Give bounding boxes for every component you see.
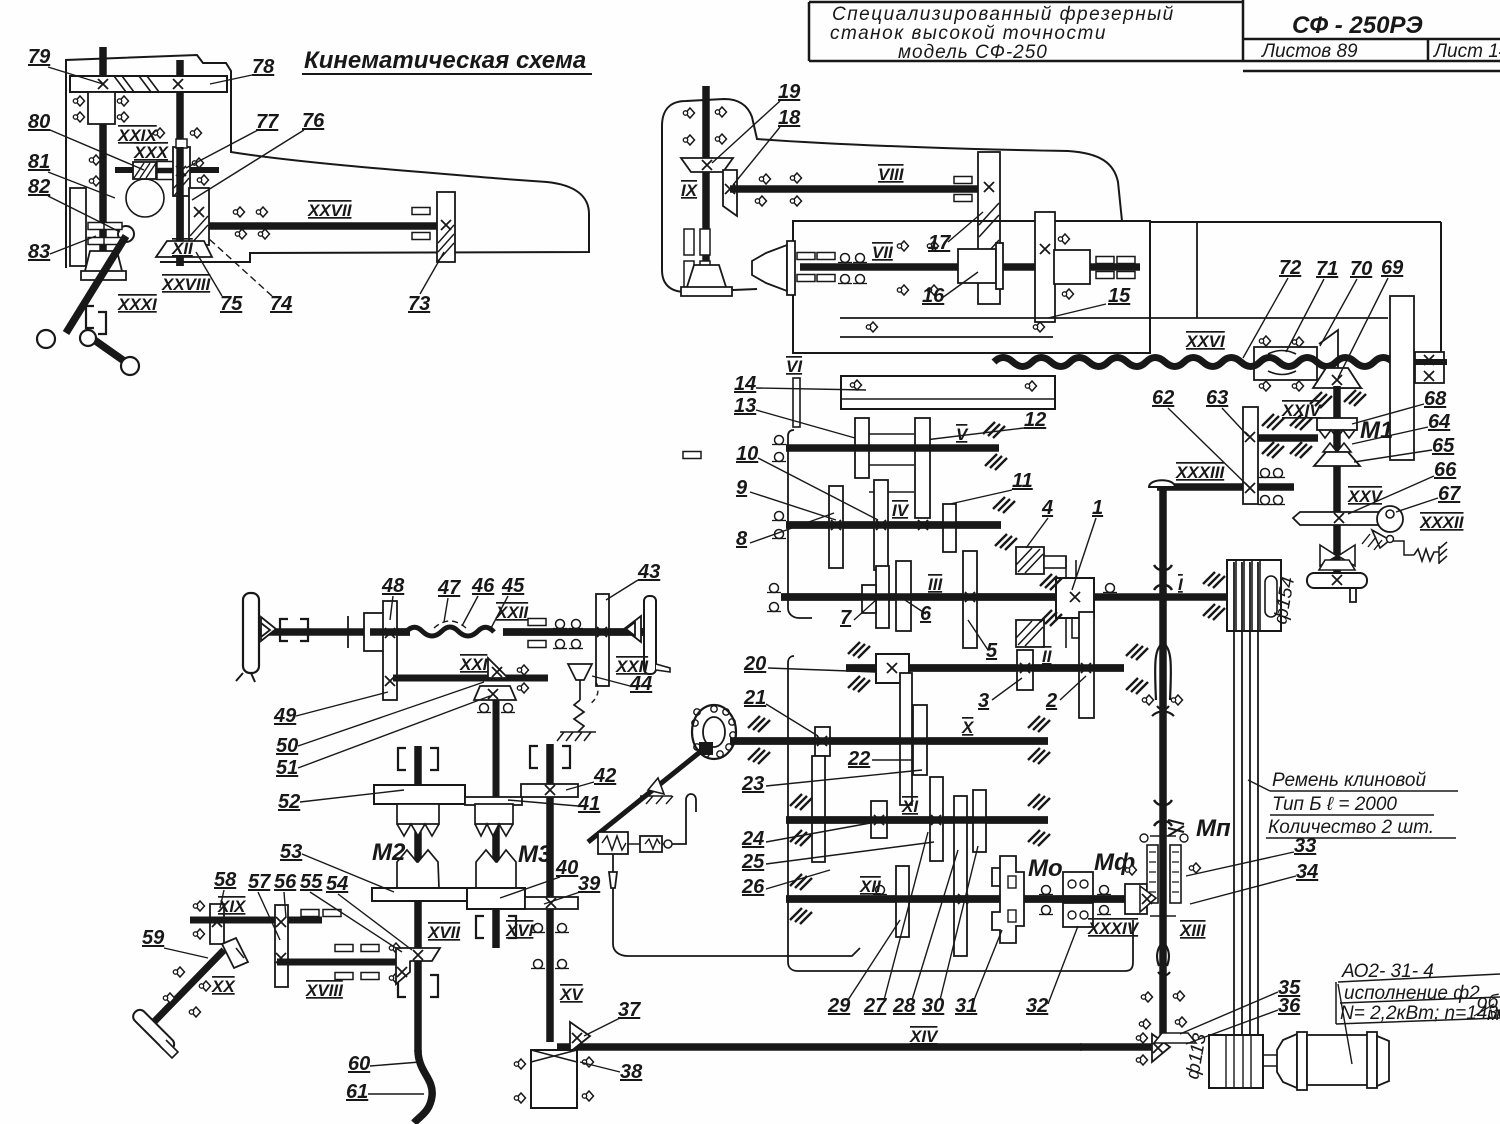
shaft XII <box>786 895 1148 903</box>
svg-text:XXVI: XXVI <box>1185 332 1226 351</box>
gear plate on IV b <box>874 480 888 570</box>
hatch pads M1 top <box>1310 392 1332 408</box>
pawl 67 <box>1372 530 1390 548</box>
bolts above XIV bevel <box>1141 992 1152 1002</box>
bevel pair right <box>624 616 641 642</box>
shaft XXV bar <box>1293 512 1380 525</box>
shaft XII over plates <box>786 895 1148 903</box>
bevel gear 70 <box>1319 330 1361 388</box>
cross shaft XXX <box>115 167 219 173</box>
svg-text:XX: XX <box>211 977 236 996</box>
gear 24 <box>871 801 887 838</box>
svg-text:XXIV: XXIV <box>1281 401 1322 420</box>
svg-text:5: 5 <box>986 640 998 662</box>
spline pads <box>157 162 175 169</box>
bolts near VIII <box>759 174 770 184</box>
shaft XXVII <box>196 222 450 230</box>
svg-text:XXXIV: XXXIV <box>1087 919 1140 938</box>
label 14 <box>734 373 866 395</box>
shaft IV over plates <box>786 521 1001 529</box>
svg-text:16: 16 <box>922 285 945 307</box>
svg-text:станок высокой точности: станок высокой точности <box>830 23 1107 44</box>
lever arm 2 <box>90 337 127 363</box>
hatch pads XII <box>790 874 812 890</box>
M2 M3 clutch: bar 52 <box>374 785 465 804</box>
label 45 <box>490 575 525 630</box>
shaft XXII over plates <box>370 628 410 636</box>
svg-text:3: 3 <box>978 690 989 712</box>
svg-text:74: 74 <box>270 293 292 315</box>
svg-text:76: 76 <box>302 110 325 132</box>
svg-text:М3: М3 <box>518 841 552 868</box>
svg-text:II: II <box>1042 647 1053 666</box>
dome bearing <box>1149 480 1175 487</box>
svg-text:14: 14 <box>734 373 756 395</box>
svg-text:XIX: XIX <box>217 897 247 916</box>
svg-text:15: 15 <box>1108 285 1131 307</box>
label 57 <box>248 871 280 940</box>
pulley d154 <box>1227 560 1281 631</box>
shaft XXXIII <box>1157 483 1294 491</box>
svg-text:19: 19 <box>778 81 801 103</box>
label 47 <box>437 577 461 622</box>
label 78 <box>210 56 275 84</box>
shaft XIV right portion <box>1080 1043 1152 1051</box>
bevel gear 19 <box>681 158 733 172</box>
label 49 <box>273 692 388 727</box>
svg-text:7: 7 <box>840 607 852 629</box>
gear plate 74 <box>189 188 209 245</box>
svg-text:XVII: XVII <box>427 923 461 942</box>
svg-text:XXV: XXV <box>1347 487 1384 506</box>
claw upper left <box>397 804 439 836</box>
svg-text:23: 23 <box>741 773 764 795</box>
shaft II over plates <box>846 664 1124 672</box>
svg-text:13: 13 <box>734 395 756 417</box>
svg-text:2: 2 <box>1045 690 1057 712</box>
spline pads XXII <box>528 619 546 626</box>
svg-text:44: 44 <box>629 673 652 695</box>
bearings III left <box>767 584 781 593</box>
label 24 <box>741 822 876 850</box>
coupling 48 block <box>364 613 385 651</box>
bevel pair left <box>261 617 276 641</box>
spline pads VII left <box>797 253 815 260</box>
spindle IX vertical <box>702 86 710 282</box>
svg-text:53: 53 <box>280 841 302 863</box>
svg-text:51: 51 <box>276 757 298 779</box>
svg-text:77: 77 <box>256 111 279 133</box>
label 63 <box>1206 387 1248 436</box>
svg-text:XV: XV <box>559 985 584 1004</box>
label 12 <box>925 409 1046 440</box>
svg-text:71: 71 <box>1316 258 1338 280</box>
svg-text:модель СФ-250: модель СФ-250 <box>898 42 1048 63</box>
brackets tops <box>398 748 406 770</box>
gear 20 box <box>876 654 909 683</box>
brackets below <box>476 916 484 938</box>
svg-text:34: 34 <box>1296 861 1318 883</box>
svg-text:60: 60 <box>348 1053 370 1075</box>
cam circle <box>126 179 164 217</box>
fork lower on XIII <box>1157 942 1170 976</box>
svg-text:XXX: XXX <box>133 143 170 162</box>
flange hub <box>699 742 713 755</box>
svg-text:Мо: Мо <box>1028 855 1063 882</box>
svg-text:68: 68 <box>1424 388 1447 410</box>
label 62 <box>1152 387 1246 484</box>
svg-text:М2: М2 <box>372 839 406 866</box>
bevel 75 <box>156 241 212 257</box>
label 1 <box>1072 497 1103 590</box>
labels 29 27 28 30 31 32 <box>827 920 900 1017</box>
labels 72 71 70 69 <box>1243 257 1301 358</box>
coupling motor <box>1263 1055 1279 1066</box>
XIV end bevels <box>1152 1034 1170 1062</box>
bar 41 <box>465 797 522 805</box>
label 64 <box>1352 411 1450 444</box>
svg-text:39: 39 <box>578 873 601 895</box>
label 20 <box>743 653 876 675</box>
svg-text:Мп: Мп <box>1196 815 1231 842</box>
svg-text:IX: IX <box>681 181 699 200</box>
bearings IV <box>772 512 786 521</box>
svg-text:Количество 2 шт.: Количество 2 шт. <box>1268 817 1434 838</box>
svg-text:СФ - 250РЭ: СФ - 250РЭ <box>1292 12 1423 39</box>
label 74 <box>208 238 292 315</box>
label 22 <box>847 748 912 770</box>
gear plate 15 <box>1035 212 1055 322</box>
svg-text:XII: XII <box>171 239 194 258</box>
claw upper right <box>475 804 513 836</box>
svg-text:40: 40 <box>555 857 578 879</box>
XXI right end splines <box>517 665 528 675</box>
x mark on XII <box>958 894 968 904</box>
end bearing box <box>1415 352 1444 383</box>
center dash line <box>850 447 920 449</box>
label 39 <box>544 873 601 904</box>
handwheel XXII <box>243 593 259 673</box>
svg-text:XXII: XXII <box>615 657 649 676</box>
spline pads XVIII <box>335 945 353 952</box>
gear 18 plate <box>723 170 737 216</box>
bolts in box <box>897 241 908 251</box>
label 6 <box>905 600 932 625</box>
svg-text:12: 12 <box>1024 409 1046 431</box>
gear plate 48 <box>383 601 397 700</box>
label 73 <box>408 252 444 315</box>
svg-text:63: 63 <box>1206 387 1228 409</box>
svg-text:26: 26 <box>741 876 765 898</box>
gear plate 43 <box>596 594 609 686</box>
svg-text:36: 36 <box>1278 995 1301 1017</box>
gear 25 <box>930 777 943 861</box>
shaft X <box>713 737 1048 745</box>
svg-text:54: 54 <box>326 873 348 895</box>
label 54 <box>326 873 412 950</box>
svg-text:75: 75 <box>220 293 243 315</box>
gear plate on IV a <box>829 486 843 568</box>
end plate <box>644 596 656 674</box>
svg-text:XIII: XIII <box>1179 921 1207 940</box>
M1 shaft vertical <box>1333 386 1341 578</box>
universal joint mid XIII <box>1154 800 1172 826</box>
label 5 <box>968 620 998 662</box>
svg-text:79: 79 <box>28 46 51 68</box>
belt lines <box>1234 562 1258 1088</box>
label 9 <box>736 477 836 520</box>
gear plate on XVIII <box>275 905 288 987</box>
label 51 <box>276 696 490 779</box>
hatch pads XI <box>790 794 812 810</box>
label 19 <box>712 81 801 163</box>
spline pads 73 <box>412 208 430 215</box>
shaft IV <box>786 521 1001 529</box>
label 41 <box>508 793 600 815</box>
label 43 <box>606 561 660 600</box>
bearing bolts XIII <box>1142 695 1153 705</box>
label 17 <box>928 212 983 254</box>
svg-text:65: 65 <box>1432 435 1455 457</box>
label 75 <box>196 252 243 315</box>
svg-text:46: 46 <box>471 575 495 597</box>
svg-text:17: 17 <box>928 232 951 254</box>
shaft XX diagonal <box>150 950 224 1026</box>
svg-text:XIV: XIV <box>909 1027 939 1046</box>
flange coupling <box>692 705 736 759</box>
shaft XVIII <box>277 959 407 966</box>
svg-text:22: 22 <box>847 748 870 770</box>
gear plate 73 <box>437 192 455 262</box>
drive cone <box>752 245 787 291</box>
dashpot lever <box>588 752 700 842</box>
vertical shaft from XXI bevel <box>493 700 500 800</box>
label 36 <box>1186 995 1301 1044</box>
label 80 <box>28 111 144 170</box>
slide block lines <box>869 434 914 492</box>
svg-text:78: 78 <box>252 56 275 78</box>
pawl link to spring <box>1393 541 1414 555</box>
lever knob <box>37 330 55 348</box>
label 48 <box>381 575 405 620</box>
clutch 4 hatched <box>1016 547 1080 648</box>
splines near Mo <box>1039 886 1053 895</box>
label 33 <box>1186 835 1316 876</box>
gear 3 <box>1017 650 1033 690</box>
end box XII <box>1125 884 1147 914</box>
svg-text:83: 83 <box>28 241 50 263</box>
label 2 <box>1045 676 1086 712</box>
svg-text:59: 59 <box>142 927 165 949</box>
label 53 <box>280 841 394 892</box>
svg-text:10: 10 <box>736 443 758 465</box>
svg-text:IV: IV <box>892 501 910 520</box>
bevel on XXI <box>488 658 508 678</box>
top bar 78 <box>70 76 227 92</box>
label 52 <box>278 790 404 813</box>
label 76 <box>192 110 325 200</box>
overrunning clutch 31 <box>992 856 1024 943</box>
label 26 <box>741 870 830 898</box>
frame right edge <box>1440 222 1442 352</box>
bearing circle left XII <box>873 886 887 895</box>
bearing I <box>1103 584 1117 593</box>
svg-text:1: 1 <box>1092 497 1103 519</box>
rack bar 14 <box>841 376 1055 409</box>
head left panel <box>70 188 86 266</box>
bolts XX <box>173 967 184 977</box>
piston 16 <box>958 249 996 283</box>
dashpot cylinder <box>598 794 696 854</box>
bearings row13 <box>772 436 786 445</box>
brackets <box>280 619 288 641</box>
gear 63 plate <box>1243 407 1258 504</box>
shaft XI over plates <box>786 816 1048 824</box>
svg-text:81: 81 <box>28 151 50 173</box>
label 34 <box>1190 861 1318 904</box>
bolts near XXVII <box>233 207 244 217</box>
svg-text:XXVIII: XXVIII <box>161 275 211 294</box>
label 37 <box>584 999 641 1036</box>
svg-text:XXI: XXI <box>459 655 489 674</box>
gearbox frame <box>788 430 812 618</box>
svg-text:24: 24 <box>741 828 764 850</box>
label 40 <box>500 857 578 898</box>
svg-text:38: 38 <box>620 1061 643 1083</box>
bar 39 <box>525 897 578 909</box>
pillar block <box>1390 296 1414 460</box>
gear plate 77 <box>173 139 190 196</box>
label 15 <box>1048 285 1131 318</box>
shaft VIII <box>730 185 985 193</box>
pulley d113 <box>1209 1035 1263 1088</box>
spring XXXII <box>1414 549 1439 561</box>
dashpot pipe <box>609 854 860 956</box>
bevel box 37 38 <box>514 1022 593 1108</box>
svg-text:Кинематическая схема: Кинематическая схема <box>304 47 586 74</box>
svg-text:61: 61 <box>346 1081 368 1103</box>
svg-text:XXVII: XXVII <box>307 201 353 220</box>
svg-text:М1: М1 <box>1360 417 1393 444</box>
motor <box>1277 1032 1389 1090</box>
svg-text:VII: VII <box>872 243 894 262</box>
left support <box>793 378 800 427</box>
label 11 <box>950 470 1033 504</box>
spline pads small <box>301 910 319 917</box>
label 67 <box>1396 483 1461 512</box>
svg-text:XXXI: XXXI <box>117 295 158 314</box>
ratchet wheel 66 <box>1377 506 1403 532</box>
handle bar <box>1307 573 1367 588</box>
svg-text:66: 66 <box>1434 459 1457 481</box>
pads 83 <box>88 223 106 230</box>
svg-text:XXXIII: XXXIII <box>1175 463 1225 482</box>
svg-text:20: 20 <box>743 653 766 675</box>
label 59 <box>142 927 208 958</box>
bolts around cross shaft <box>89 155 100 165</box>
label 81 <box>28 151 115 198</box>
label 44 <box>592 673 652 695</box>
hatch pads II <box>848 642 870 658</box>
svg-text:48: 48 <box>381 575 405 597</box>
svg-text:V: V <box>956 425 969 444</box>
svg-text:49: 49 <box>273 705 297 727</box>
shaft XXII with wave <box>259 628 410 636</box>
shaft XI <box>786 816 1048 824</box>
lever XXXI arm <box>66 236 126 333</box>
gear 6 <box>896 561 911 631</box>
label 25 <box>741 842 934 873</box>
frame bottom <box>788 656 1133 971</box>
gear 29 plate <box>896 866 909 937</box>
svg-text:43: 43 <box>637 561 660 583</box>
spline pads at VIII end <box>954 177 972 184</box>
bearing circles XV <box>531 924 545 933</box>
svg-text:50: 50 <box>276 735 298 757</box>
frame inner vertical <box>1196 222 1198 318</box>
svg-text:31: 31 <box>955 995 977 1017</box>
worm shaft XXVI wave <box>994 358 1439 367</box>
svg-text:47: 47 <box>437 577 461 599</box>
svg-text:37: 37 <box>618 999 641 1021</box>
gear 2 plate <box>1079 612 1094 718</box>
svg-text:21: 21 <box>743 687 766 709</box>
svg-text:82: 82 <box>28 176 50 198</box>
label 58 <box>214 869 237 908</box>
funnel + spring 44 <box>568 664 592 700</box>
universal joint upper XIII <box>1154 565 1172 590</box>
bent plate 59 <box>222 938 248 968</box>
title block left box <box>809 0 1500 71</box>
svg-text:69: 69 <box>1381 257 1404 279</box>
bolts XIX <box>193 901 204 911</box>
gear plate 17 <box>978 152 1000 304</box>
clutch M1 <box>1314 418 1360 466</box>
label 46 <box>462 575 495 626</box>
label 18 <box>733 107 801 185</box>
label 38 <box>580 1061 643 1083</box>
gear 21 lower plate <box>812 756 825 862</box>
label 56 <box>274 871 297 918</box>
label 42 <box>566 765 616 790</box>
svg-text:XII: XII <box>859 877 882 896</box>
gear 30 <box>973 790 986 852</box>
svg-text:VI: VI <box>786 357 803 376</box>
svg-text:Лист 14: Лист 14 <box>1432 41 1500 62</box>
svg-text:Специализированный фрезерны: Специализированный фрезерный <box>832 4 1175 25</box>
gear 5 <box>963 551 977 648</box>
claw lower right <box>476 850 516 888</box>
svg-text:70: 70 <box>1350 258 1372 280</box>
svg-text:67: 67 <box>1438 483 1461 505</box>
vertical shaft XVII <box>414 746 422 1052</box>
shaft XXIV <box>1258 434 1318 442</box>
svg-text:11: 11 <box>1012 470 1033 492</box>
svg-text:32: 32 <box>1026 995 1048 1017</box>
label 50 <box>276 682 484 757</box>
vertical shaft mid <box>492 800 500 888</box>
motor note <box>1336 961 1500 1064</box>
svg-text:57: 57 <box>248 871 271 893</box>
belt note <box>1248 770 1458 838</box>
label 65 <box>1354 435 1455 462</box>
claw lower left <box>397 850 439 888</box>
spindle foot <box>681 265 732 296</box>
svg-text:29: 29 <box>827 995 851 1017</box>
svg-text:4: 4 <box>1041 497 1053 519</box>
svg-text:9: 9 <box>736 477 748 499</box>
label 66 <box>1348 459 1457 514</box>
